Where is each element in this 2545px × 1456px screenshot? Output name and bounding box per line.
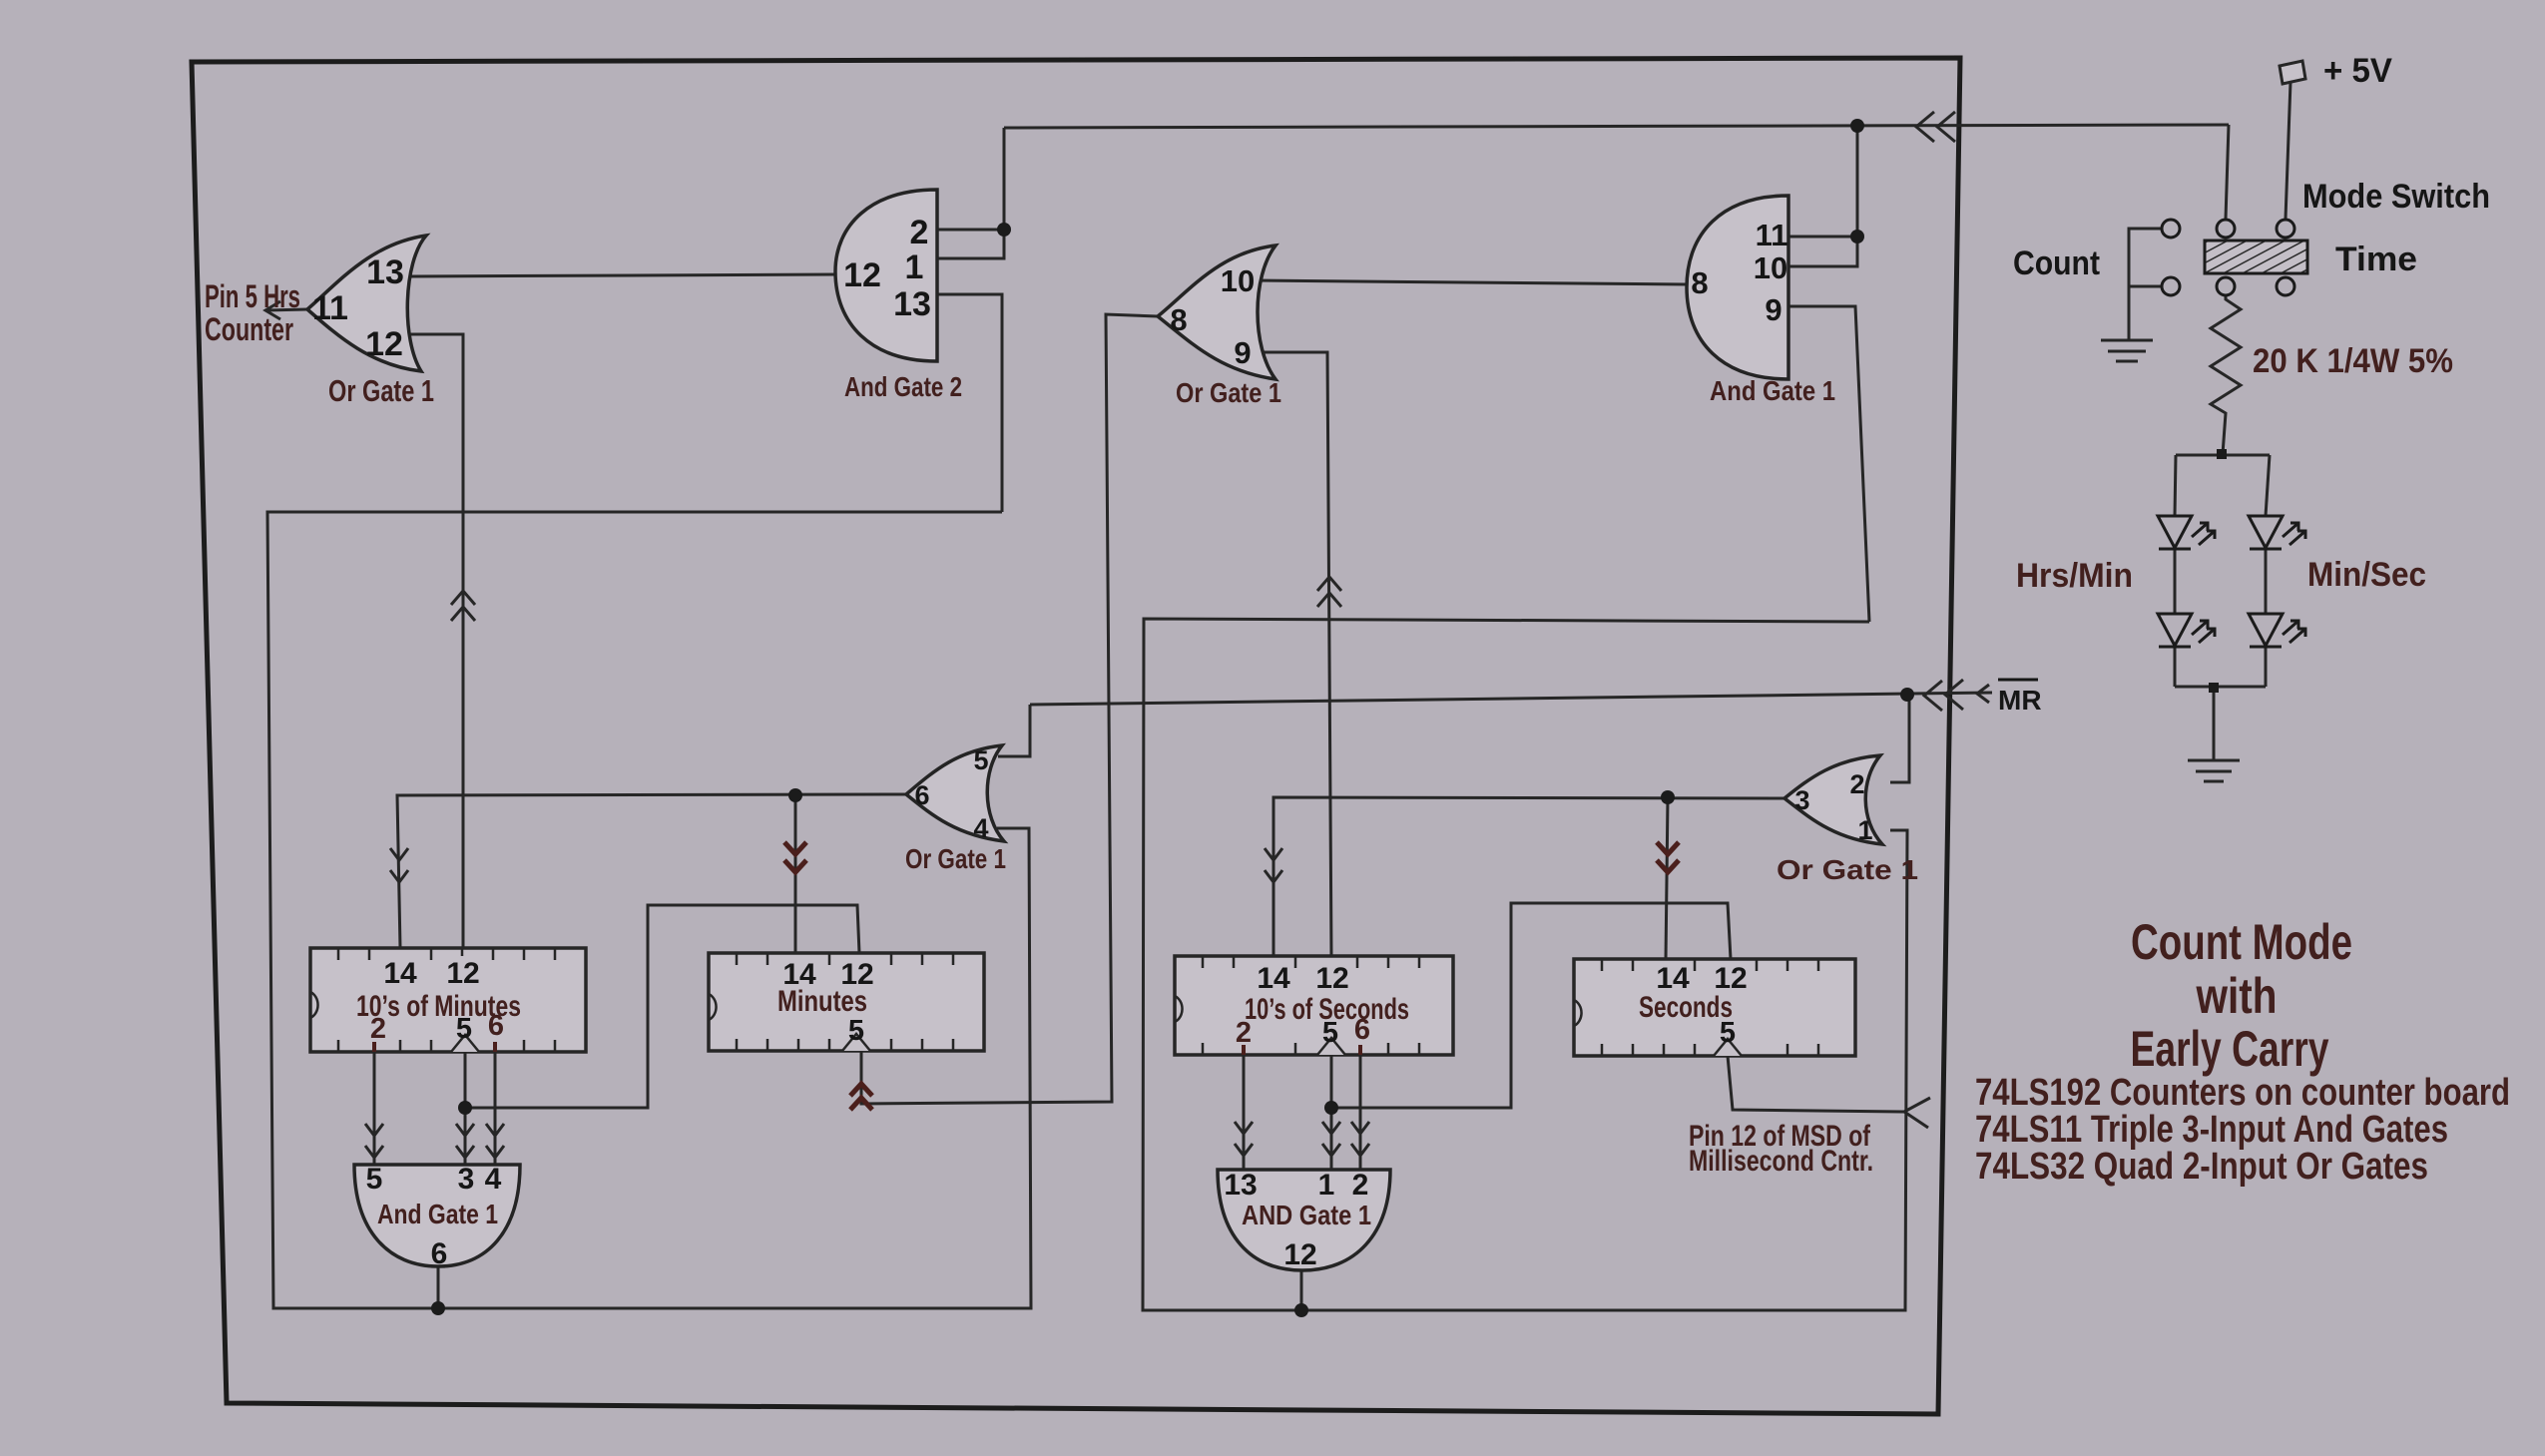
svg-text:Count Mode: Count Mode [2131, 914, 2352, 970]
svg-text:8: 8 [1691, 265, 1708, 300]
svg-text:6: 6 [431, 1237, 448, 1270]
svg-text:4: 4 [485, 1163, 502, 1196]
svg-text:9: 9 [1234, 335, 1251, 370]
svg-text:4: 4 [973, 813, 988, 843]
svg-text:11: 11 [1756, 218, 1788, 252]
svg-text:Mode Switch: Mode Switch [2302, 178, 2490, 216]
svg-text:+ 5V: + 5V [2323, 52, 2392, 90]
svg-text:3: 3 [458, 1163, 475, 1196]
svg-text:10’s of Minutes: 10’s of Minutes [356, 990, 521, 1023]
svg-text:12: 12 [365, 325, 403, 363]
svg-text:2: 2 [910, 214, 929, 251]
svg-text:14: 14 [1257, 962, 1290, 995]
svg-text:13: 13 [893, 285, 931, 323]
svg-text:Hrs/Min: Hrs/Min [2016, 557, 2133, 595]
svg-text:Minutes: Minutes [777, 985, 867, 1018]
svg-text:8: 8 [1170, 302, 1187, 337]
svg-text:And Gate 1: And Gate 1 [377, 1199, 498, 1229]
svg-text:12: 12 [1315, 962, 1348, 995]
svg-text:5: 5 [848, 1015, 864, 1047]
svg-text:And Gate 1: And Gate 1 [1710, 375, 1835, 406]
svg-text:with: with [2196, 968, 2278, 1024]
svg-text:Pin 5 Hrs: Pin 5 Hrs [205, 278, 300, 314]
svg-text:5: 5 [366, 1163, 383, 1196]
svg-text:5: 5 [973, 745, 988, 775]
svg-text:74LS11 Triple 3-Input And Gate: 74LS11 Triple 3-Input And Gates [1975, 1109, 2448, 1151]
svg-text:MR: MR [1998, 685, 2042, 716]
svg-text:AND Gate 1: AND Gate 1 [1242, 1200, 1371, 1230]
svg-text:11: 11 [312, 289, 348, 327]
svg-text:Early Carry: Early Carry [2131, 1021, 2329, 1077]
svg-text:9: 9 [1765, 292, 1781, 327]
svg-text:13: 13 [1224, 1169, 1257, 1202]
svg-text:10’s of Seconds: 10’s of Seconds [1245, 993, 1409, 1026]
svg-text:12: 12 [446, 957, 479, 990]
svg-text:14: 14 [383, 957, 417, 990]
svg-text:10: 10 [1754, 250, 1787, 285]
svg-text:Counter: Counter [205, 311, 293, 347]
svg-text:13: 13 [366, 253, 404, 291]
svg-text:6: 6 [914, 780, 929, 810]
svg-text:3: 3 [1794, 785, 1809, 815]
svg-text:Millisecond Cntr.: Millisecond Cntr. [1689, 1145, 1873, 1178]
svg-text:And Gate 2: And Gate 2 [844, 371, 962, 402]
svg-text:2: 2 [1849, 769, 1864, 799]
svg-text:12: 12 [843, 256, 881, 294]
svg-text:2: 2 [1352, 1169, 1369, 1202]
svg-text:10: 10 [1221, 263, 1255, 298]
svg-text:Or Gate 1: Or Gate 1 [1777, 854, 1918, 885]
svg-text:1: 1 [905, 248, 924, 286]
svg-text:Or Gate 1: Or Gate 1 [905, 843, 1006, 874]
svg-text:74LS32 Quad 2-Input Or Gates: 74LS32 Quad 2-Input Or Gates [1975, 1146, 2428, 1188]
svg-text:Or Gate 1: Or Gate 1 [1176, 377, 1281, 408]
svg-text:20 K 1/4W 5%: 20 K 1/4W 5% [2253, 342, 2453, 380]
svg-text:Seconds: Seconds [1639, 991, 1733, 1024]
svg-text:12: 12 [1283, 1238, 1316, 1271]
svg-text:1: 1 [1318, 1169, 1335, 1202]
svg-text:74LS192 Counters on counter bo: 74LS192 Counters on counter board [1975, 1072, 2510, 1114]
svg-text:Or Gate 1: Or Gate 1 [328, 373, 434, 408]
svg-text:1: 1 [1857, 815, 1872, 845]
svg-text:Time: Time [2335, 241, 2417, 278]
svg-text:Min/Sec: Min/Sec [2307, 556, 2426, 594]
svg-text:Count: Count [2013, 244, 2100, 282]
